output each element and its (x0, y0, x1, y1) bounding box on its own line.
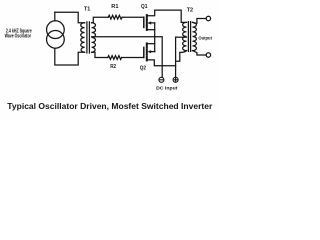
svg-text:Typical Oscillator Driven, Mos: Typical Oscillator Driven, Mosfet Switch… (7, 101, 213, 111)
transistor Q1 channel (146, 15, 148, 30)
wire T1 secondary top to R1 (92, 17, 109, 23)
wire R1 to Q1 gate (122, 16, 144, 18)
wire T2 secondary top to output terminal (193, 19, 207, 24)
svg-text:T2: T2 (187, 8, 193, 14)
transistor Q1 body lead (151, 22, 155, 24)
DC input minus terminal (159, 77, 164, 82)
transformer T1 secondary winding (92, 23, 96, 53)
transistor Q2 arrow (147, 50, 151, 53)
oscillator OSC circles (47, 21, 65, 39)
transformer T2 primary winding (183, 22, 187, 50)
svg-text:R1: R1 (111, 4, 118, 10)
transistor Q1 drain lead (147, 10, 155, 16)
wire top rail Q1 drain to T2 primary top (155, 10, 187, 22)
wire R2 to Q2 gate (122, 57, 144, 59)
transistor Q2 body lead (151, 51, 155, 53)
output terminal bottom (206, 53, 210, 57)
transistor Q2 source lead to bottom rail (147, 60, 176, 66)
resistor R1 (108, 15, 122, 19)
transformer T1 primary winding (81, 23, 85, 53)
wire mid rail (T1 center tap to DC minus) (92, 37, 163, 78)
wire T2 primary bottom elbow (176, 51, 187, 62)
svg-text:R2: R2 (110, 64, 116, 70)
transistor Q2 body vertical to mid rail (154, 37, 156, 52)
svg-text:DC Input: DC Input (156, 86, 178, 92)
svg-text:T1: T1 (84, 6, 90, 12)
output terminal top (206, 16, 210, 20)
svg-text:Wave Oscillator: Wave Oscillator (5, 34, 32, 40)
wire osc top stub (54, 12, 56, 21)
svg-text:Q2: Q2 (140, 65, 146, 71)
transistor Q1 body-source vertical (154, 23, 156, 37)
transistor Q1 source lead (147, 29, 155, 31)
transistor Q2 channel (146, 43, 148, 60)
resistor R2 (108, 56, 122, 60)
transformer T2 core (187, 22, 189, 52)
wire T2 secondary bottom to output terminal (193, 51, 207, 55)
DC input plus terminal (173, 77, 178, 82)
wire osc bottom to T1 primary bottom (55, 48, 85, 65)
wire DC plus vertical (175, 37, 177, 77)
wire T1 secondary bottom to R2 (92, 52, 108, 57)
svg-text:Q1: Q1 (141, 4, 148, 10)
wire top-left rail to T1 primary top (55, 12, 85, 23)
transistor Q2 gate bar (143, 47, 145, 57)
svg-text:Output: Output (198, 36, 212, 41)
transistor Q2 top lead (147, 43, 155, 45)
wire T2 primary center tap (176, 36, 187, 38)
transformer T1 core (86, 22, 88, 53)
transistor Q1 arrow (147, 21, 151, 24)
transformer T2 secondary winding (193, 22, 197, 50)
transistor Q1 gate bar (143, 17, 145, 27)
